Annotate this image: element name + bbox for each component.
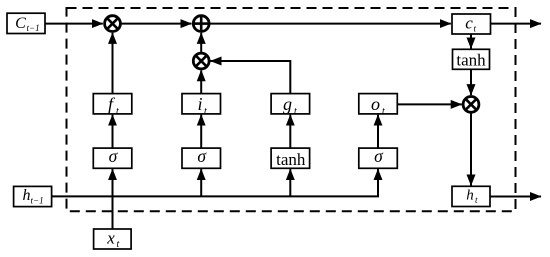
svg-text:t: t — [382, 106, 385, 117]
branch to tanh lower — [289, 169, 291, 196]
wire g_t to multiply2 — [211, 61, 291, 94]
add node plus — [193, 16, 209, 32]
svg-text:c: c — [465, 14, 473, 33]
wire x_t to sigma1 — [112, 169, 114, 229]
box x_t — [94, 229, 132, 249]
svg-text:t: t — [475, 195, 478, 205]
svg-text:σ: σ — [109, 146, 119, 166]
svg-text:h: h — [466, 188, 474, 204]
box sigma1 — [93, 148, 132, 168]
svg-text:σ: σ — [374, 146, 384, 166]
box o_t — [359, 94, 398, 114]
wire tanh lower to g_t — [289, 115, 291, 148]
wire i_t to multiply2 — [200, 70, 202, 93]
box tanh lower — [271, 148, 310, 168]
wire multiply3 to h_t — [470, 113, 472, 186]
wire tanh to multiply3 — [470, 69, 472, 95]
box C_{t-1} — [7, 13, 45, 33]
box h_{t-1} — [14, 186, 52, 206]
wire c_t to tanh — [470, 34, 472, 49]
svg-text:o: o — [371, 94, 380, 114]
multiply node X3 — [463, 97, 479, 113]
wire C_{t-1} to multiply1 — [45, 23, 103, 25]
output arrow h_t — [490, 196, 541, 198]
wire sigma1 to f_t — [112, 115, 114, 148]
h rail with branch to sigma3 — [52, 169, 378, 196]
svg-text:t: t — [294, 106, 297, 117]
wire multiply1 to add — [121, 23, 192, 25]
svg-text:tanh: tanh — [276, 150, 306, 169]
box tanh upper — [453, 49, 490, 69]
box sigma3 — [359, 148, 398, 168]
multiply node X1 — [105, 16, 121, 32]
output arrow c_t — [491, 23, 542, 25]
svg-text:h: h — [23, 187, 31, 204]
box g_t — [271, 94, 310, 114]
multiply node X2 — [193, 53, 209, 69]
wire add to c_t — [210, 23, 451, 25]
svg-text:t−1: t−1 — [31, 195, 44, 205]
svg-text:g: g — [283, 94, 292, 114]
svg-text:tanh: tanh — [456, 50, 486, 69]
svg-text:t−1: t−1 — [27, 23, 40, 33]
svg-text:i: i — [197, 94, 202, 114]
svg-text:σ: σ — [197, 146, 207, 166]
wire sigma2 to i_t — [200, 115, 202, 148]
box i_t — [182, 94, 221, 114]
box h_t — [452, 186, 490, 206]
dashed cell boundary — [67, 8, 516, 211]
svg-text:x: x — [106, 228, 115, 247]
box sigma2 — [182, 148, 221, 168]
box c_t — [452, 14, 491, 34]
box f_t — [93, 94, 132, 114]
svg-text:C: C — [15, 15, 26, 32]
wire sigma3 to o_t — [377, 115, 379, 148]
svg-text:t: t — [116, 106, 119, 117]
wire o_t to multiply3 — [397, 103, 461, 105]
wire f_t to multiply1 — [112, 33, 114, 94]
wire multiply2 to add — [200, 33, 202, 53]
svg-text:t: t — [474, 24, 477, 34]
svg-text:f: f — [108, 94, 116, 114]
branch to sigma2 — [200, 169, 202, 196]
svg-text:t: t — [117, 239, 120, 250]
svg-text:t: t — [204, 106, 207, 117]
